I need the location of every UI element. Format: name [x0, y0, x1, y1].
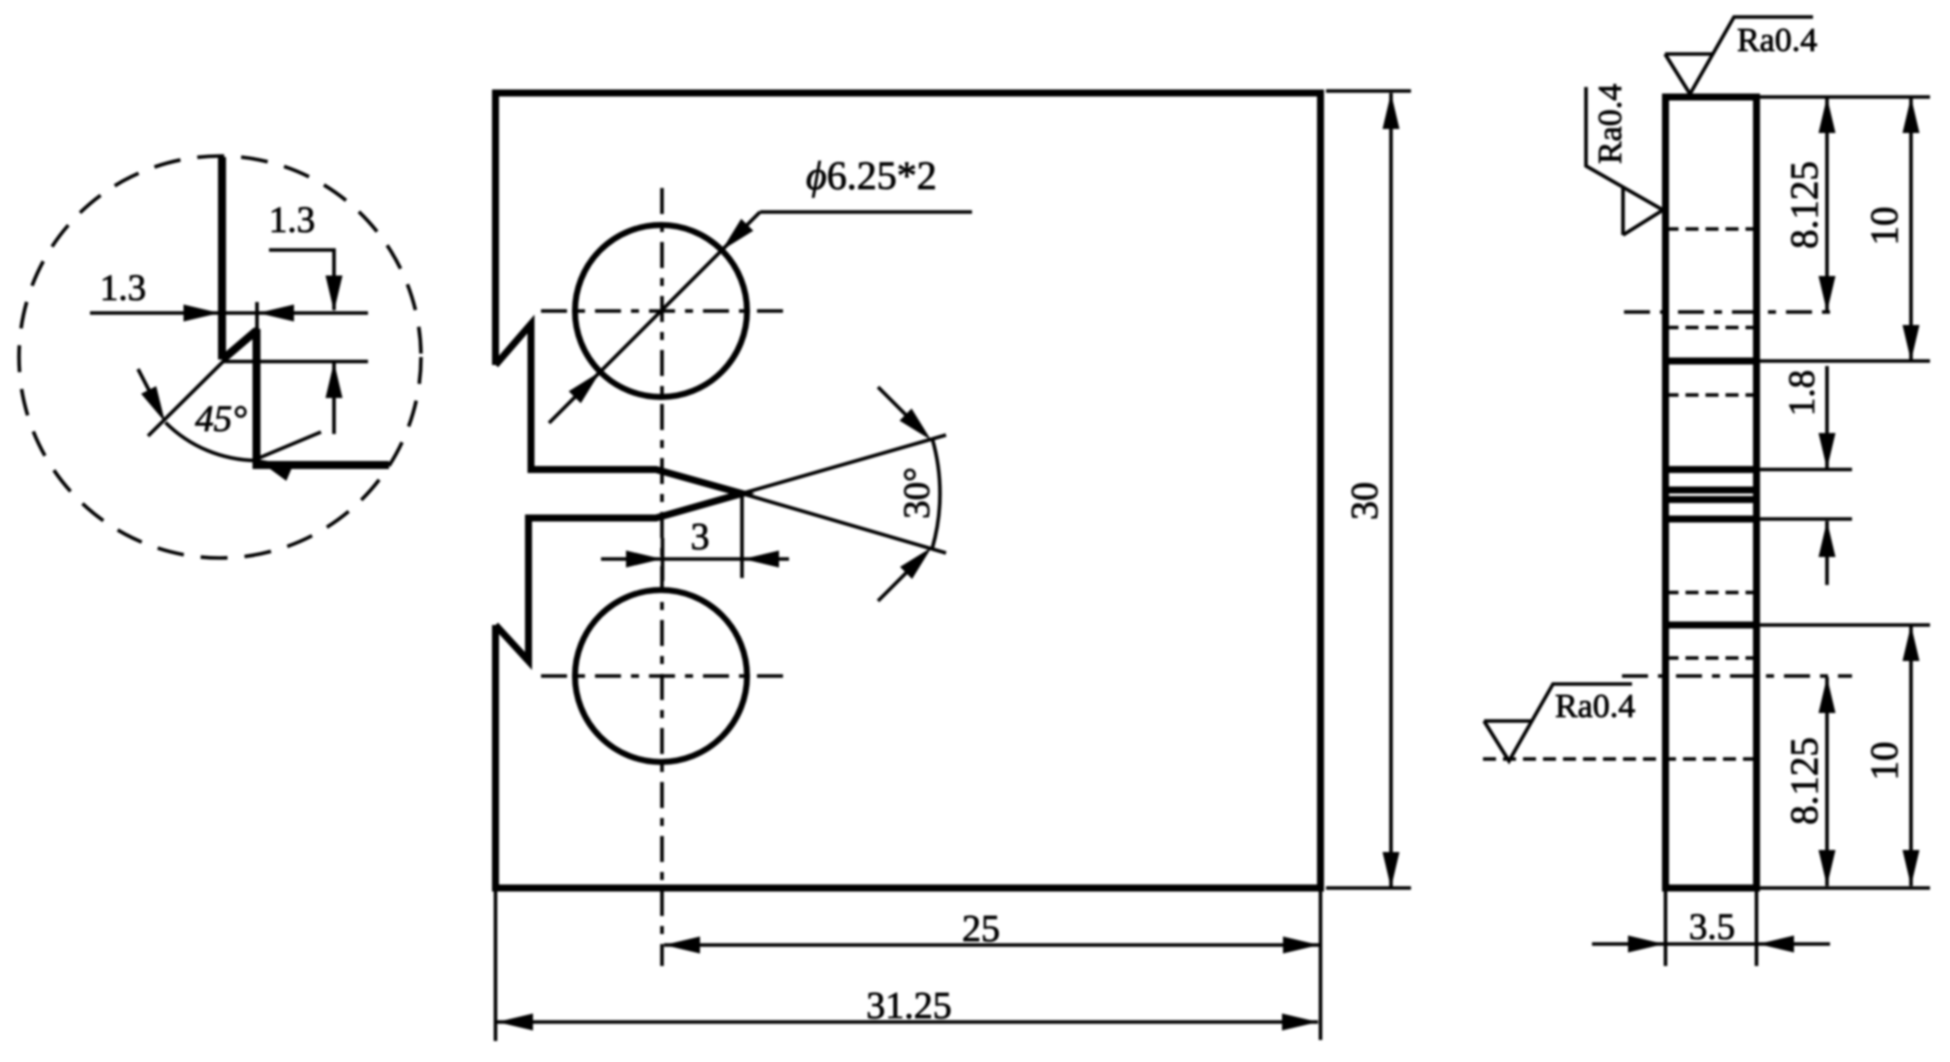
svg-text:8.125: 8.125 — [1783, 161, 1826, 249]
svg-text:1.3: 1.3 — [269, 200, 315, 241]
svg-text:10: 10 — [1863, 742, 1906, 781]
svg-text:3.5: 3.5 — [1689, 907, 1735, 948]
svg-text:10: 10 — [1863, 207, 1906, 246]
svg-text:30°: 30° — [897, 467, 938, 519]
svg-text:31.25: 31.25 — [866, 985, 952, 1027]
svg-text:25: 25 — [962, 908, 1000, 950]
svg-text:30: 30 — [1344, 482, 1386, 520]
svg-text:Ra0.4: Ra0.4 — [1592, 84, 1629, 164]
svg-text:45°: 45° — [195, 399, 247, 440]
svg-text:1.8: 1.8 — [1782, 370, 1823, 416]
svg-text:Ra0.4: Ra0.4 — [1737, 22, 1817, 59]
svg-text:8.125: 8.125 — [1783, 737, 1826, 825]
svg-text:1.3: 1.3 — [100, 268, 146, 309]
svg-text:Ra0.4: Ra0.4 — [1555, 688, 1635, 725]
svg-text:ϕ6.25*2: ϕ6.25*2 — [806, 153, 937, 198]
svg-text:3: 3 — [691, 516, 710, 558]
